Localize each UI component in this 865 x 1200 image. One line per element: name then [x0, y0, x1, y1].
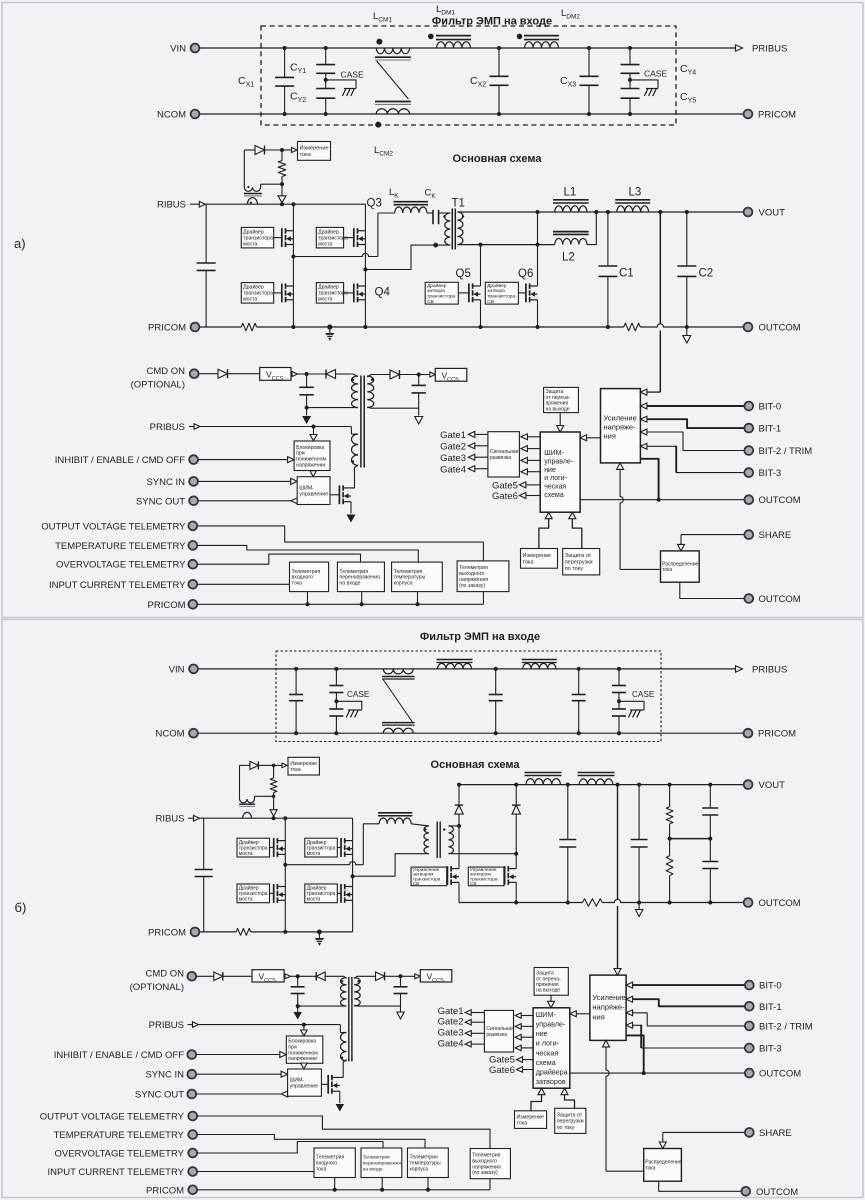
- terminal BIT-2 (b): [745, 1022, 754, 1031]
- svg-text:корпуса: корпуса: [394, 581, 413, 587]
- junction CX1b bottom: [294, 731, 298, 735]
- terminal SHARE (b): [745, 1128, 754, 1137]
- box ШИМ-управление (a): [297, 477, 330, 505]
- feedback into amp top (b): [617, 962, 619, 969]
- inductor LDM2 (b): [523, 663, 556, 669]
- wire OUTCOM to amp (a): [640, 459, 658, 500]
- wire aux secondary top (a): [367, 375, 390, 378]
- svg-text:Драйвер: Драйвер: [243, 229, 264, 236]
- inductor LDM1 core (a): [436, 35, 471, 37]
- svg-text:L3: L3: [629, 187, 642, 199]
- svg-text:Q3: Q3: [367, 198, 382, 210]
- terminal PRICOM telemetry (b): [188, 1185, 197, 1194]
- phase dot T secondary (b): [443, 828, 445, 830]
- wire T1 secondary bottom (a): [457, 244, 554, 246]
- sync FET1 drain (b): [458, 826, 460, 869]
- junction CY chain bottom: [324, 112, 328, 116]
- ground symbol bridge (a): [329, 327, 331, 333]
- wire to VCCS2 (a): [419, 374, 429, 376]
- junction CY chain top: [324, 46, 328, 50]
- wire CY to CASE (b): [336, 701, 361, 710]
- transformer T secondary winding (b): [449, 826, 454, 854]
- arrow Gate4 (b): [465, 1041, 471, 1047]
- svg-text:(по заказу): (по заказу): [459, 583, 485, 589]
- capacitor CY5 (a): [629, 80, 631, 89]
- svg-text:Gate2: Gate2: [440, 441, 466, 452]
- junction T1 primary bottom (a): [433, 243, 438, 248]
- junction C1 top (a): [606, 210, 610, 214]
- inductor L1 (a): [555, 206, 587, 212]
- svg-text:VIN: VIN: [170, 44, 186, 55]
- ground arrow VCCS2 (a): [418, 408, 420, 415]
- svg-text:Gate4: Gate4: [438, 1038, 464, 1049]
- junction VCCS1 cap bottom (a): [305, 406, 309, 410]
- wire PRICOM rail (b): [200, 931, 237, 933]
- chassis CASE (b-right): [630, 709, 644, 711]
- wire SYNC OUT (b): [281, 1091, 288, 1097]
- svg-text:затворов: затворов: [536, 1077, 566, 1086]
- inductor LDM2 (a): [525, 42, 559, 48]
- diode aux primary (b): [298, 975, 317, 977]
- bridge left leg (b): [284, 818, 286, 932]
- junction CX2b bottom: [494, 731, 498, 735]
- box Защита от перегрузки (b): [555, 1108, 586, 1133]
- stub box2 to PRICOM (a): [361, 592, 363, 605]
- svg-text:BIT-1: BIT-1: [759, 424, 782, 435]
- svg-text:SHARE: SHARE: [759, 1128, 792, 1139]
- junction divider bottom rail (b): [668, 901, 672, 905]
- driver box LL (b): [237, 884, 270, 903]
- svg-text:тока: тока: [662, 567, 672, 573]
- wire INHIBIT (a): [198, 459, 288, 461]
- wire PRICOM telemetry (a): [197, 603, 483, 605]
- gate lead LL (b): [270, 892, 274, 894]
- svg-text:TEMPERATURE TELEMETRY: TEMPERATURE TELEMETRY: [54, 1130, 185, 1141]
- phase dot T1 primary (a): [443, 215, 445, 217]
- gate lead upper-right (a): [344, 237, 354, 239]
- terminal PRICOM (b): [744, 729, 753, 738]
- junction left midpoint (b): [283, 863, 287, 867]
- LCM1 top core (a): [375, 56, 411, 58]
- junction left leg top (a): [291, 202, 295, 206]
- svg-text:СВ: СВ: [487, 299, 494, 305]
- output capacitor (b): [638, 785, 640, 840]
- arrow amp in1 (a): [640, 389, 647, 395]
- svg-text:перегрузки: перегрузки: [565, 560, 593, 566]
- svg-text:PRICOM: PRICOM: [758, 110, 796, 121]
- driver box Q upper-right (a): [316, 227, 343, 248]
- junction F2 source rail (b): [514, 901, 518, 905]
- wire aux secondary top (b): [354, 976, 375, 978]
- junction C2 top (a): [685, 210, 689, 214]
- svg-text:развязка: развязка: [486, 1032, 507, 1038]
- resistor PRICOM rail left (a): [241, 323, 256, 331]
- arrow Gate6 (b): [517, 1067, 523, 1073]
- junction fb top (b): [616, 783, 620, 787]
- capacitor CY1 (a): [325, 48, 327, 65]
- phase dot LDM1 (a): [428, 34, 434, 40]
- svg-text:моста: моста: [243, 242, 257, 248]
- box ШИМ b (b): [533, 1008, 570, 1088]
- phase dot CT primary (a): [250, 202, 252, 204]
- wire secondary bottom (b): [449, 853, 517, 855]
- arrow below C2 (a): [686, 327, 688, 335]
- arrow amp BIT-2 (b): [626, 1010, 633, 1016]
- terminal BIT-3 (a): [744, 468, 753, 477]
- arrow into UVLO (b): [303, 1025, 305, 1030]
- svg-text:RIBUS: RIBUS: [155, 814, 184, 825]
- arrow PRIBUS in (a): [189, 426, 194, 428]
- junction diode out (b): [272, 764, 276, 768]
- driver box UL (b): [237, 838, 270, 857]
- svg-text:тока: тока: [300, 152, 312, 158]
- driver box Q lower-left (a): [241, 283, 273, 304]
- wire OV to box2 (b): [197, 1142, 383, 1154]
- junction CX1b top: [294, 667, 298, 671]
- svg-text:BIT-1: BIT-1: [759, 1002, 782, 1013]
- svg-text:управле-: управле-: [544, 458, 574, 465]
- wire SYNC IN (a): [198, 480, 291, 482]
- aux transformer core (a): [360, 376, 362, 468]
- junction CX2 bottom: [497, 112, 501, 116]
- arrow Izmerenie to PWM (b): [538, 1088, 545, 1095]
- svg-text:Измерение: Измерение: [517, 1114, 545, 1120]
- gate lead PWM fet (b): [321, 1083, 328, 1085]
- svg-text:Gate5: Gate5: [492, 481, 518, 492]
- terminal VOUT (b): [744, 780, 753, 789]
- svg-text:PRIBUS: PRIBUS: [150, 422, 185, 433]
- svg-text:моста: моста: [318, 297, 332, 303]
- box VCCS 2 (a): [435, 368, 467, 381]
- arrow UVLO to PWM-upr (b): [303, 1062, 305, 1065]
- stub box4 to PRICOM (a): [482, 592, 484, 605]
- arrow link4 (a): [521, 469, 528, 475]
- junction compcap mid (b): [708, 837, 712, 841]
- junction compcap top (b): [708, 783, 712, 787]
- svg-text:BIT-3: BIT-3: [759, 468, 782, 479]
- capacitor CY4 (a): [629, 48, 631, 65]
- junction C2 bottom (a): [685, 325, 689, 329]
- junction sec top / D1 (b): [457, 824, 461, 828]
- wire PWM source (b): [339, 1091, 341, 1103]
- wire SHARE (a): [681, 534, 745, 536]
- box VCCS 1 (b): [252, 970, 284, 982]
- svg-text:по току: по току: [557, 1125, 575, 1131]
- svg-text:и логи-: и логи-: [536, 1039, 560, 1048]
- gate lead lower-left (a): [274, 292, 282, 294]
- junction CX3b bottom: [577, 731, 581, 735]
- comp capacitor top (b): [709, 785, 711, 808]
- phase dot aux primary (b): [341, 980, 343, 982]
- svg-text:PRICOM: PRICOM: [148, 600, 186, 611]
- svg-text:Gate6: Gate6: [492, 491, 518, 502]
- divider resistor top (b): [669, 785, 671, 807]
- junction divider top (b): [668, 783, 672, 787]
- svg-text:по току: по току: [565, 566, 584, 572]
- junction OUTCOM elbow (b): [642, 1071, 646, 1075]
- terminal BIT-0 (b): [745, 981, 754, 990]
- svg-text:развязка: развязка: [490, 455, 511, 461]
- wire Q6 drain (a): [537, 212, 539, 286]
- transistor PWM aux (b): [327, 1075, 329, 1094]
- transistor LR (b): [340, 884, 342, 903]
- driver box Q5 (a): [425, 282, 458, 304]
- arrow link2 (b): [515, 1024, 521, 1030]
- wire RIBUS rail (b): [200, 817, 353, 819]
- svg-text:тока: тока: [645, 1166, 655, 1172]
- wire L2 to output node (a): [587, 212, 596, 245]
- svg-text:Драйвер: Драйвер: [487, 282, 507, 289]
- arrow Gate1 (a): [468, 431, 475, 437]
- transistor Q3 (a): [353, 228, 355, 247]
- inductor L2 (a): [555, 238, 587, 244]
- wire left midpoint hop (b): [285, 862, 363, 865]
- terminal SHARE (a): [744, 530, 753, 539]
- svg-text:CMD ON: CMD ON: [146, 366, 185, 377]
- wire VOUT rail (b): [459, 784, 744, 786]
- phase dot aux secondary (b): [357, 980, 359, 982]
- wire SYNC IN (b): [196, 1073, 281, 1075]
- wire T1 secondary top (a): [457, 211, 743, 213]
- divider resistor bottom (b): [669, 839, 671, 856]
- CT secondary lead (b): [239, 765, 241, 799]
- wire aux primary bottom (b): [298, 1005, 347, 1007]
- terminal SYNC IN (a): [189, 477, 198, 486]
- terminal NCOM (a): [191, 110, 200, 119]
- svg-text:транзистора: транзистора: [427, 295, 455, 300]
- stub box3 to PRICOM (a): [417, 592, 419, 605]
- svg-text:NCOM: NCOM: [157, 110, 186, 121]
- junction CX3 top: [587, 46, 591, 50]
- arrow amp bottom (a): [617, 463, 624, 470]
- junction VCCS1 node (b): [296, 974, 300, 978]
- resistor (b): [273, 765, 275, 778]
- bulk capacitor (b): [203, 818, 205, 869]
- capacitor VCCS1 (b): [297, 976, 299, 987]
- svg-text:OUTCOM: OUTCOM: [759, 323, 801, 334]
- svg-text:Усиление: Усиление: [592, 993, 625, 1002]
- arrow amp in3 BIT-1 (a): [640, 416, 647, 422]
- svg-text:INPUT CURRENT TELEMETRY: INPUT CURRENT TELEMETRY: [47, 1167, 184, 1178]
- box Телеметрия перенапряжения (b): [361, 1148, 402, 1178]
- svg-text:OUTCOM: OUTCOM: [759, 495, 801, 506]
- junction OUTCOM elbow (a): [657, 498, 661, 502]
- inductor L2 core (a): [553, 231, 589, 233]
- box Усиление напряжения (b): [590, 975, 626, 1040]
- svg-text:драйвера: драйвера: [536, 1068, 568, 1077]
- arrow amp to PWM (a): [580, 435, 587, 441]
- driver box UR (b): [305, 838, 338, 857]
- arrow PRIBUS output (a): [736, 45, 743, 51]
- svg-text:на входе: на входе: [363, 1167, 383, 1172]
- capacitor CY2 (a): [325, 80, 327, 89]
- EMI filter dashed boundary (a): [261, 26, 676, 125]
- inductor LDM1 (a): [437, 42, 471, 48]
- svg-text:ния: ния: [592, 1012, 604, 1021]
- capacitor CX1 (a): [284, 48, 286, 77]
- stub box3 PRICOM (b): [427, 1178, 429, 1190]
- svg-text:Gate3: Gate3: [440, 453, 466, 464]
- junction sec bottom / D2 (b): [514, 852, 518, 856]
- gate lead lower-right (a): [344, 292, 354, 294]
- junction Q6 bottom-wire (a): [536, 243, 540, 247]
- svg-text:СВ: СВ: [427, 299, 434, 305]
- rectifier diode D2 (b): [515, 814, 517, 854]
- CM choke bottom winding (b): [383, 728, 413, 733]
- box VCCS 1 (a): [260, 368, 291, 381]
- arrow link3 (a): [521, 457, 528, 463]
- series inductor (b): [379, 818, 411, 824]
- junction resistor bottom (b): [272, 795, 276, 799]
- svg-text:Gate6: Gate6: [489, 1065, 515, 1076]
- junction CX3b top: [577, 667, 581, 671]
- svg-text:TEMPERATURE TELEMETRY: TEMPERATURE TELEMETRY: [55, 541, 186, 552]
- terminal OV (b): [188, 1149, 197, 1158]
- wire Q5 source (a): [480, 300, 482, 327]
- svg-text:корпуса: корпуса: [410, 1166, 429, 1172]
- svg-text:Фильтр ЭМП на входе: Фильтр ЭМП на входе: [432, 16, 552, 28]
- svg-text:Измерение: Измерение: [523, 553, 552, 559]
- arrow PRIBUS (b): [736, 666, 743, 672]
- arrow Gate2 (a): [468, 443, 475, 449]
- bridge right leg (a): [364, 204, 366, 327]
- arrow down to rail (b): [273, 796, 275, 809]
- wire bottom rail NCOM-PRICOM (a): [200, 113, 744, 115]
- wire PRIBUS to aux (b): [199, 1024, 341, 1026]
- junction D1 VOUT rail (b): [457, 783, 461, 787]
- aux secondary winding (b): [354, 978, 360, 1006]
- transistor Q6 (a): [525, 284, 527, 303]
- wire INHIBIT (b): [196, 1054, 280, 1056]
- wire TT to box3 (b): [197, 1135, 425, 1149]
- wire right midpoint to T1 primary (a): [365, 245, 450, 269]
- svg-text:PRICOM: PRICOM: [758, 729, 796, 740]
- junction CY45 bottom: [628, 112, 632, 116]
- box Телеметрия температуры (b): [408, 1148, 449, 1178]
- svg-text:Фильтр ЭМП на входе: Фильтр ЭМП на входе: [420, 631, 540, 643]
- svg-text:Основная схема: Основная схема: [453, 153, 543, 165]
- svg-text:INHIBIT / ENABLE / CMD OFF: INHIBIT / ENABLE / CMD OFF: [55, 455, 185, 466]
- gate lead PWM fet (a): [330, 494, 339, 496]
- terminal TT (a): [188, 541, 197, 550]
- svg-text:SYNC OUT: SYNC OUT: [135, 1090, 184, 1101]
- arrow amp bottom (b): [603, 1040, 610, 1047]
- arrow OVP to PWM box (a): [559, 413, 561, 426]
- svg-text:T1: T1: [452, 198, 465, 210]
- box Телеметрия перенапряжения (a): [337, 562, 384, 592]
- inductor L3 core (a): [615, 199, 650, 201]
- stub box1 PRICOM (b): [334, 1178, 336, 1190]
- gate lead F2 (b): [503, 875, 506, 877]
- box Измерение тока (a): [298, 142, 331, 161]
- aux transformer lower winding (a): [350, 427, 352, 435]
- svg-text:OVERVOLTAGE TELEMETRY: OVERVOLTAGE TELEMETRY: [54, 1149, 184, 1160]
- box Телеметрия выходного напряжения (a): [457, 561, 509, 592]
- capacitor CY1 (b): [335, 669, 337, 686]
- svg-text:C2: C2: [699, 268, 714, 280]
- wire CY45 to CASE (b): [619, 701, 644, 710]
- arrow amp to PWM (b): [570, 1011, 577, 1017]
- arrow RIBUS (a): [190, 203, 199, 205]
- terminal CMD ON (a): [190, 369, 199, 378]
- phase dot CT secondary (a): [247, 186, 249, 188]
- svg-text:СВ: СВ: [413, 881, 420, 887]
- terminal TT (b): [188, 1130, 197, 1139]
- capacitor CX2 (b): [495, 669, 497, 695]
- arrow amp BIT-3 (b): [626, 1022, 633, 1028]
- wire inductor to T primary (b): [411, 824, 429, 826]
- svg-text:Gate1: Gate1: [438, 1006, 464, 1017]
- series inductor core (b): [378, 812, 412, 814]
- terminal BIT-2 (a): [744, 446, 753, 455]
- LCM1 coupling diagonal (a): [377, 61, 409, 99]
- ground symbol (b): [317, 930, 322, 935]
- diode aux primary (a): [307, 373, 326, 375]
- wire F1 source (b): [458, 882, 460, 902]
- wire OVT to box4 (a): [197, 526, 483, 561]
- svg-text:CASE: CASE: [347, 690, 370, 699]
- svg-text:а): а): [14, 236, 26, 251]
- transistor UR (b): [340, 838, 342, 857]
- arrow RIBUS (b): [188, 817, 193, 819]
- capacitor CX1 (b): [295, 669, 297, 695]
- terminal OUTCOM ctrl (a): [744, 495, 753, 504]
- wire PWM drain (b): [340, 1060, 347, 1078]
- LCM1 bottom core (a): [375, 101, 411, 103]
- stub box1 to PRICOM (a): [307, 592, 309, 605]
- junction CX3 bottom: [587, 112, 591, 116]
- filter capacitor mid (b): [567, 785, 569, 840]
- arrow link3 (b): [515, 1034, 521, 1040]
- terminal OUTCOM main (b): [744, 898, 753, 907]
- svg-text:управление: управление: [299, 492, 328, 498]
- svg-text:Драйвер: Драйвер: [318, 229, 339, 236]
- phase dot aux secondary (a): [371, 378, 374, 381]
- terminal BIT-1 (b): [745, 1002, 754, 1011]
- terminal SYNC OUT (b): [187, 1090, 196, 1099]
- arrow amp in4 BIT-2 (a): [640, 429, 647, 435]
- stub box4 PRICOM (b): [489, 1179, 491, 1190]
- output inductor 1 core (b): [525, 772, 562, 774]
- svg-text:моста: моста: [239, 897, 253, 903]
- junction left leg bottom (b): [283, 930, 287, 934]
- svg-text:OVERVOLTAGE TELEMETRY: OVERVOLTAGE TELEMETRY: [56, 560, 186, 571]
- wire SYNC OUT (a): [291, 498, 298, 504]
- junction VCCS2 node (b): [399, 974, 403, 978]
- svg-text:моста: моста: [307, 897, 321, 903]
- transistor Q4 (a): [353, 284, 355, 303]
- aux transformer secondary winding (a): [367, 376, 374, 408]
- junction VCCS1 node (a): [305, 372, 309, 376]
- terminal INHIBIT (b): [187, 1050, 196, 1059]
- wire Q5 drain (a): [480, 245, 482, 286]
- junction PRIBUS branch (a): [312, 425, 316, 429]
- wire CY midpoint to CASE (a): [326, 80, 356, 89]
- CM choke bottom core (b): [382, 722, 415, 724]
- junction CX1 top: [283, 46, 287, 50]
- svg-text:(по заказу): (по заказу): [472, 1170, 498, 1176]
- svg-text:моста: моста: [239, 851, 253, 857]
- terminal OVT (b): [188, 1112, 197, 1121]
- phase dot LDM2 (a): [517, 34, 523, 40]
- gate lead UL (b): [270, 847, 274, 849]
- junction cap bottom (b): [296, 1004, 300, 1008]
- terminal OUTCOM ctrl (b): [745, 1069, 754, 1078]
- arrow OVP to PWM (b): [550, 995, 552, 1001]
- svg-text:Драйвер: Драйвер: [243, 284, 264, 291]
- wire F2 source (b): [515, 882, 517, 902]
- box Телеметрия температуры (a): [392, 562, 443, 592]
